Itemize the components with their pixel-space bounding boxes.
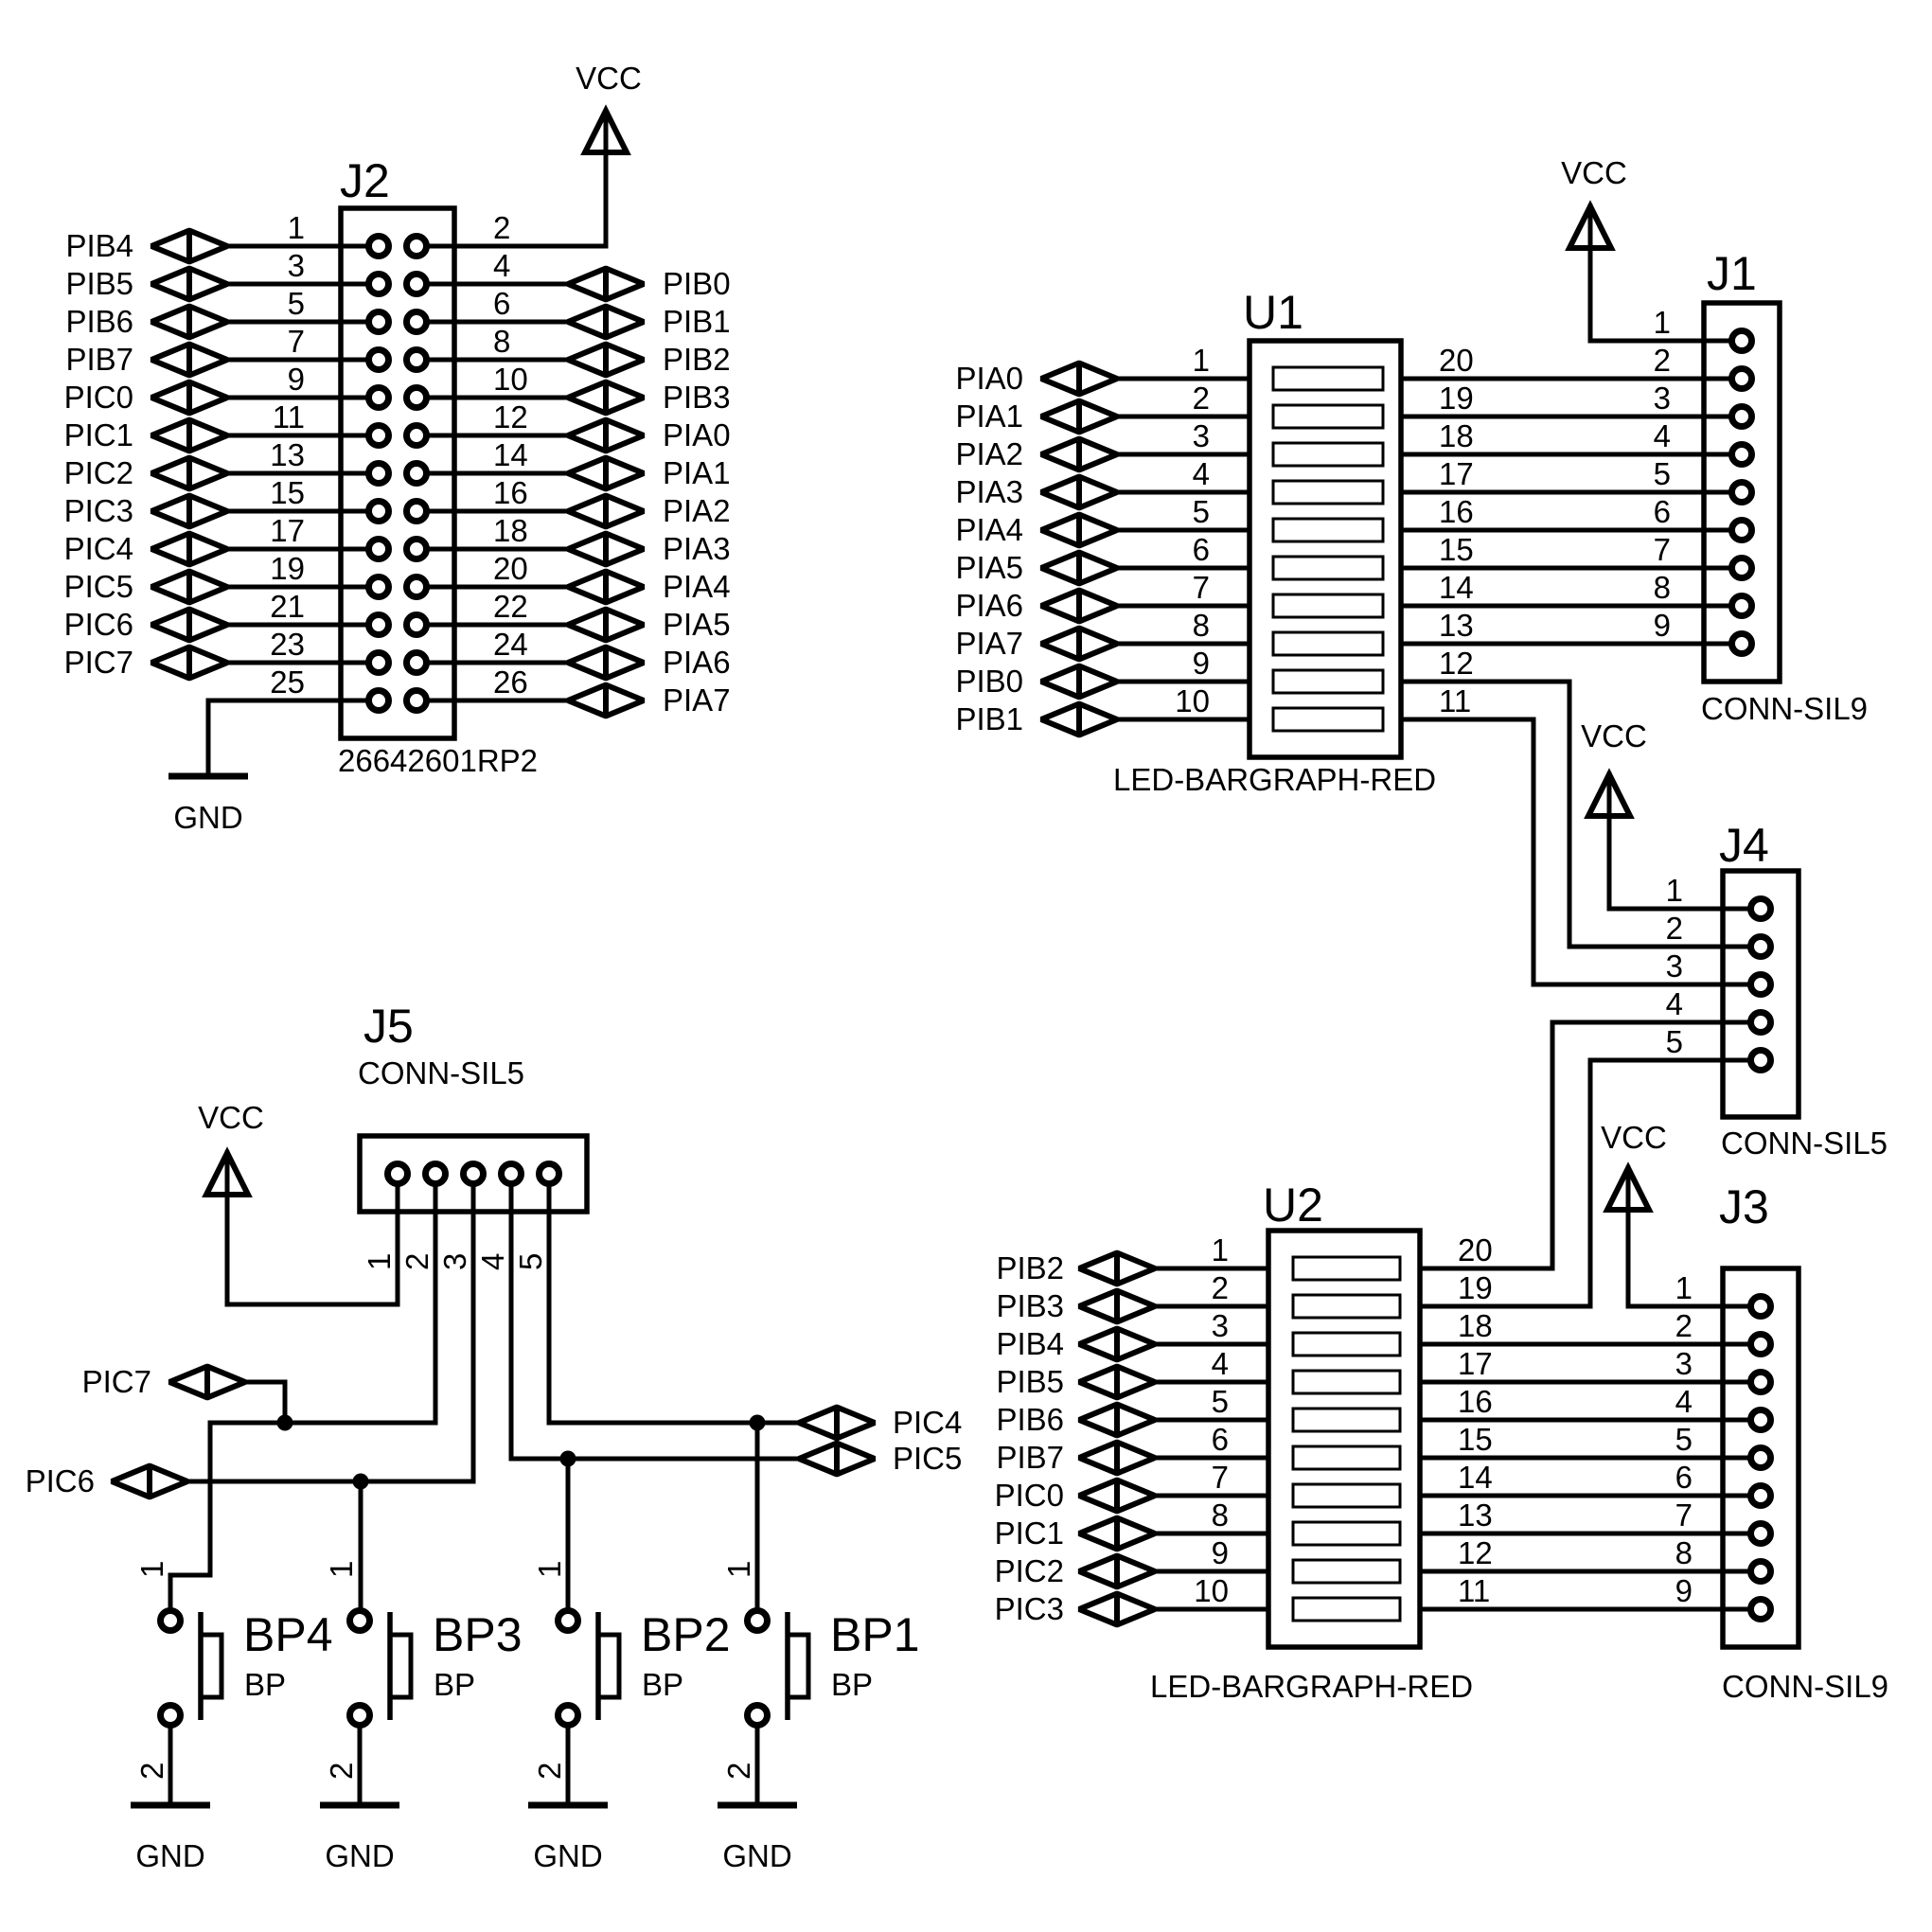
svg-text:2: 2 bbox=[134, 1763, 169, 1780]
svg-text:16: 16 bbox=[493, 475, 528, 510]
svg-text:PIA0: PIA0 bbox=[663, 417, 731, 452]
svg-text:18: 18 bbox=[1458, 1308, 1493, 1343]
svg-text:PIA7: PIA7 bbox=[955, 626, 1023, 661]
svg-text:5: 5 bbox=[513, 1253, 548, 1270]
svg-text:PIA2: PIA2 bbox=[663, 493, 731, 528]
svg-text:2: 2 bbox=[1675, 1308, 1693, 1343]
svg-text:J1: J1 bbox=[1707, 247, 1757, 300]
svg-text:9: 9 bbox=[1193, 646, 1210, 681]
svg-text:GND: GND bbox=[325, 1838, 394, 1873]
svg-text:7: 7 bbox=[288, 324, 305, 359]
svg-text:2: 2 bbox=[324, 1763, 359, 1780]
svg-text:PIC7: PIC7 bbox=[82, 1364, 151, 1399]
svg-text:11: 11 bbox=[1458, 1573, 1490, 1608]
svg-text:18: 18 bbox=[493, 513, 528, 548]
svg-text:13: 13 bbox=[270, 437, 305, 472]
svg-text:22: 22 bbox=[493, 589, 528, 624]
svg-text:8: 8 bbox=[1212, 1498, 1229, 1533]
svg-text:12: 12 bbox=[1458, 1535, 1493, 1570]
svg-text:J4: J4 bbox=[1719, 819, 1769, 872]
svg-text:10: 10 bbox=[1194, 1573, 1229, 1608]
svg-text:6: 6 bbox=[1193, 532, 1210, 567]
svg-text:BP: BP bbox=[642, 1667, 683, 1702]
svg-text:14: 14 bbox=[1439, 570, 1474, 605]
svg-text:PIA6: PIA6 bbox=[955, 588, 1023, 623]
svg-text:U2: U2 bbox=[1263, 1179, 1323, 1232]
svg-text:J3: J3 bbox=[1719, 1180, 1769, 1233]
svg-text:CONN-SIL9: CONN-SIL9 bbox=[1701, 691, 1868, 726]
svg-text:12: 12 bbox=[1439, 646, 1474, 681]
svg-text:GND: GND bbox=[533, 1838, 602, 1873]
svg-text:BP4: BP4 bbox=[243, 1608, 333, 1661]
svg-text:13: 13 bbox=[1458, 1498, 1493, 1533]
svg-text:PIB5: PIB5 bbox=[996, 1364, 1064, 1399]
svg-text:14: 14 bbox=[1458, 1460, 1493, 1495]
svg-text:6: 6 bbox=[1675, 1460, 1693, 1495]
svg-text:12: 12 bbox=[493, 399, 528, 434]
svg-text:2: 2 bbox=[1666, 911, 1683, 946]
svg-text:21: 21 bbox=[270, 589, 305, 624]
svg-text:1: 1 bbox=[324, 1561, 359, 1578]
svg-text:3: 3 bbox=[1666, 948, 1683, 984]
svg-text:9: 9 bbox=[1654, 608, 1671, 643]
svg-text:PIB4: PIB4 bbox=[996, 1326, 1064, 1361]
svg-text:5: 5 bbox=[1212, 1384, 1229, 1419]
svg-text:11: 11 bbox=[273, 399, 305, 434]
svg-text:5: 5 bbox=[288, 286, 305, 321]
svg-text:PIC5: PIC5 bbox=[893, 1441, 962, 1476]
svg-text:VCC: VCC bbox=[576, 61, 642, 96]
svg-text:4: 4 bbox=[1675, 1384, 1693, 1419]
svg-text:VCC: VCC bbox=[1601, 1120, 1667, 1155]
svg-text:3: 3 bbox=[1675, 1346, 1693, 1381]
svg-text:PIC3: PIC3 bbox=[995, 1591, 1064, 1626]
svg-text:10: 10 bbox=[1175, 683, 1210, 718]
svg-text:16: 16 bbox=[1458, 1384, 1493, 1419]
svg-text:PIC7: PIC7 bbox=[64, 645, 133, 680]
svg-text:PIB3: PIB3 bbox=[663, 380, 731, 415]
svg-text:26: 26 bbox=[493, 665, 528, 700]
svg-text:PIA5: PIA5 bbox=[663, 607, 731, 642]
svg-text:PIA5: PIA5 bbox=[955, 550, 1023, 585]
svg-text:PIB6: PIB6 bbox=[65, 304, 133, 339]
svg-text:4: 4 bbox=[1654, 418, 1671, 453]
svg-text:PIB0: PIB0 bbox=[955, 664, 1023, 699]
svg-text:2: 2 bbox=[1193, 381, 1210, 416]
svg-text:BP: BP bbox=[831, 1667, 873, 1702]
svg-text:PIA6: PIA6 bbox=[663, 645, 731, 680]
svg-text:3: 3 bbox=[1654, 381, 1671, 416]
svg-text:25: 25 bbox=[270, 665, 305, 700]
svg-text:VCC: VCC bbox=[1581, 718, 1647, 753]
svg-text:J5: J5 bbox=[363, 1000, 414, 1053]
svg-text:PIB7: PIB7 bbox=[996, 1440, 1064, 1475]
svg-text:5: 5 bbox=[1675, 1422, 1693, 1457]
svg-text:18: 18 bbox=[1439, 418, 1474, 453]
svg-text:1: 1 bbox=[1654, 305, 1671, 340]
svg-text:16: 16 bbox=[1439, 494, 1474, 529]
svg-text:4: 4 bbox=[493, 248, 510, 283]
svg-text:1: 1 bbox=[532, 1561, 567, 1578]
svg-text:BP1: BP1 bbox=[830, 1608, 920, 1661]
svg-text:3: 3 bbox=[288, 248, 305, 283]
svg-text:1: 1 bbox=[721, 1561, 756, 1578]
svg-text:PIA4: PIA4 bbox=[663, 569, 731, 604]
svg-text:PIB2: PIB2 bbox=[996, 1250, 1064, 1285]
svg-text:LED-BARGRAPH-RED: LED-BARGRAPH-RED bbox=[1150, 1669, 1473, 1704]
svg-text:GND: GND bbox=[722, 1838, 791, 1873]
svg-text:CONN-SIL9: CONN-SIL9 bbox=[1722, 1669, 1888, 1704]
svg-text:BP3: BP3 bbox=[433, 1608, 523, 1661]
svg-text:VCC: VCC bbox=[198, 1100, 264, 1135]
svg-text:PIA3: PIA3 bbox=[955, 474, 1023, 509]
svg-text:7: 7 bbox=[1212, 1460, 1229, 1495]
svg-text:17: 17 bbox=[270, 513, 305, 548]
svg-text:CONN-SIL5: CONN-SIL5 bbox=[1721, 1126, 1888, 1161]
svg-text:15: 15 bbox=[1439, 532, 1474, 567]
svg-text:24: 24 bbox=[493, 627, 528, 662]
svg-text:23: 23 bbox=[270, 627, 305, 662]
svg-text:9: 9 bbox=[288, 362, 305, 397]
svg-text:1: 1 bbox=[1675, 1270, 1693, 1305]
svg-text:PIB3: PIB3 bbox=[996, 1288, 1064, 1323]
svg-text:2: 2 bbox=[1212, 1270, 1229, 1305]
svg-text:GND: GND bbox=[173, 800, 242, 835]
svg-text:26642601RP2: 26642601RP2 bbox=[338, 743, 538, 778]
svg-text:PIC5: PIC5 bbox=[64, 569, 133, 604]
svg-text:19: 19 bbox=[1439, 381, 1474, 416]
svg-text:20: 20 bbox=[1439, 343, 1474, 378]
svg-text:PIC6: PIC6 bbox=[64, 607, 133, 642]
svg-text:3: 3 bbox=[1193, 418, 1210, 453]
svg-text:PIB2: PIB2 bbox=[663, 342, 731, 377]
svg-text:6: 6 bbox=[493, 286, 510, 321]
svg-text:1: 1 bbox=[362, 1253, 397, 1270]
svg-text:PIA0: PIA0 bbox=[955, 361, 1023, 396]
svg-text:PIC2: PIC2 bbox=[995, 1553, 1064, 1588]
svg-text:PIC1: PIC1 bbox=[64, 417, 133, 452]
svg-text:6: 6 bbox=[1654, 494, 1671, 529]
svg-text:1: 1 bbox=[288, 210, 305, 245]
svg-text:20: 20 bbox=[493, 551, 528, 586]
svg-text:4: 4 bbox=[475, 1253, 510, 1270]
svg-text:9: 9 bbox=[1675, 1573, 1693, 1608]
svg-text:PIC0: PIC0 bbox=[64, 380, 133, 415]
svg-text:PIC4: PIC4 bbox=[64, 531, 133, 566]
svg-text:4: 4 bbox=[1666, 986, 1683, 1021]
svg-text:PIC1: PIC1 bbox=[995, 1515, 1064, 1551]
svg-text:PIC4: PIC4 bbox=[893, 1405, 962, 1440]
svg-text:7: 7 bbox=[1193, 570, 1210, 605]
svg-text:PIB6: PIB6 bbox=[996, 1402, 1064, 1437]
svg-text:2: 2 bbox=[721, 1763, 756, 1780]
svg-text:7: 7 bbox=[1654, 532, 1671, 567]
svg-text:11: 11 bbox=[1439, 683, 1471, 718]
svg-text:7: 7 bbox=[1675, 1498, 1693, 1533]
svg-text:BP: BP bbox=[244, 1667, 286, 1702]
svg-text:1: 1 bbox=[134, 1561, 169, 1578]
svg-text:17: 17 bbox=[1458, 1346, 1493, 1381]
svg-text:15: 15 bbox=[270, 475, 305, 510]
svg-text:PIC2: PIC2 bbox=[64, 455, 133, 490]
svg-text:PIC0: PIC0 bbox=[995, 1478, 1064, 1513]
svg-text:PIA2: PIA2 bbox=[955, 436, 1023, 471]
svg-text:PIB7: PIB7 bbox=[65, 342, 133, 377]
svg-text:1: 1 bbox=[1212, 1232, 1229, 1267]
svg-text:5: 5 bbox=[1654, 456, 1671, 491]
svg-text:3: 3 bbox=[437, 1253, 472, 1270]
svg-text:1: 1 bbox=[1193, 343, 1210, 378]
svg-text:BP2: BP2 bbox=[641, 1608, 731, 1661]
svg-text:VCC: VCC bbox=[1561, 155, 1627, 190]
svg-text:PIA1: PIA1 bbox=[955, 399, 1023, 434]
svg-text:PIB5: PIB5 bbox=[65, 266, 133, 301]
svg-text:8: 8 bbox=[1193, 608, 1210, 643]
svg-text:8: 8 bbox=[1675, 1535, 1693, 1570]
svg-text:5: 5 bbox=[1666, 1024, 1683, 1059]
svg-text:2: 2 bbox=[399, 1253, 434, 1270]
svg-text:1: 1 bbox=[1666, 873, 1683, 908]
svg-text:PIA1: PIA1 bbox=[663, 455, 731, 490]
svg-text:20: 20 bbox=[1458, 1232, 1493, 1267]
svg-text:19: 19 bbox=[1458, 1270, 1493, 1305]
svg-text:13: 13 bbox=[1439, 608, 1474, 643]
svg-text:GND: GND bbox=[135, 1838, 204, 1873]
svg-text:PIC6: PIC6 bbox=[26, 1463, 95, 1498]
svg-text:2: 2 bbox=[1654, 343, 1671, 378]
svg-text:PIA3: PIA3 bbox=[663, 531, 731, 566]
svg-text:2: 2 bbox=[493, 210, 510, 245]
svg-text:4: 4 bbox=[1212, 1346, 1229, 1381]
svg-text:PIA4: PIA4 bbox=[955, 512, 1023, 547]
svg-text:3: 3 bbox=[1212, 1308, 1229, 1343]
svg-text:PIA7: PIA7 bbox=[663, 682, 731, 718]
svg-text:CONN-SIL5: CONN-SIL5 bbox=[358, 1055, 524, 1090]
svg-text:9: 9 bbox=[1212, 1535, 1229, 1570]
svg-text:17: 17 bbox=[1439, 456, 1474, 491]
svg-text:2: 2 bbox=[532, 1763, 567, 1780]
svg-text:8: 8 bbox=[1654, 570, 1671, 605]
svg-text:U1: U1 bbox=[1243, 286, 1303, 339]
svg-text:8: 8 bbox=[493, 324, 510, 359]
svg-text:PIB4: PIB4 bbox=[65, 228, 133, 263]
svg-text:LED-BARGRAPH-RED: LED-BARGRAPH-RED bbox=[1113, 762, 1436, 797]
svg-text:BP: BP bbox=[434, 1667, 475, 1702]
svg-text:10: 10 bbox=[493, 362, 528, 397]
svg-text:PIB0: PIB0 bbox=[663, 266, 731, 301]
svg-text:PIC3: PIC3 bbox=[64, 493, 133, 528]
svg-text:15: 15 bbox=[1458, 1422, 1493, 1457]
svg-text:J2: J2 bbox=[340, 154, 390, 207]
svg-text:19: 19 bbox=[270, 551, 305, 586]
svg-text:5: 5 bbox=[1193, 494, 1210, 529]
svg-text:14: 14 bbox=[493, 437, 528, 472]
svg-text:PIB1: PIB1 bbox=[955, 701, 1023, 736]
svg-text:PIB1: PIB1 bbox=[663, 304, 731, 339]
svg-text:6: 6 bbox=[1212, 1422, 1229, 1457]
svg-text:4: 4 bbox=[1193, 456, 1210, 491]
